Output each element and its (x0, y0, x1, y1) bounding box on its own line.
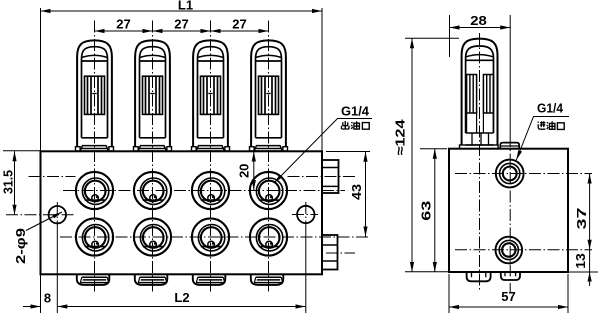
dim 57 ext right (567, 274, 569, 313)
dim L1 ext left (40, 8, 42, 151)
arrow 27 c2R (153, 29, 163, 33)
svg-text:63: 63 (419, 201, 434, 221)
centerline mounting-hole left vertical (56, 202, 58, 230)
dim 43 ext top (326, 151, 370, 153)
dim L2 line (57, 306, 305, 308)
dim 31.5 ext top (3, 150, 40, 152)
svg-text:57: 57 (501, 289, 515, 304)
port A4 (250, 172, 287, 209)
svg-text:37: 37 (575, 207, 589, 229)
svg-text:27: 27 (232, 17, 246, 32)
dim 43 line (365, 152, 367, 237)
dim 37/13 line (589, 174, 591, 287)
arrowhead leader 2-phi9 (52, 212, 62, 218)
centerline column 2 (152, 21, 154, 293)
svg-text:43: 43 (349, 184, 364, 200)
centerline inlet port (side) (509, 15, 511, 135)
valve body (front) (41, 151, 323, 274)
char jin (538, 121, 546, 129)
svg-text:G1/4: G1/4 (341, 105, 369, 119)
leader lines (26, 117, 569, 231)
arrow 27 c3L (201, 29, 211, 33)
centerline port row 2 (60, 236, 370, 238)
arrowhead leader outlet (274, 175, 283, 184)
centerline port row 1 (63, 190, 345, 192)
foot 3 (193, 274, 226, 285)
side port 1 (496, 160, 524, 188)
port A3 (192, 172, 229, 209)
valve cap 3 (192, 40, 230, 151)
svg-text:20: 20 (237, 164, 252, 178)
arrow 27 c1 (95, 29, 105, 33)
arrow 124 top (410, 38, 414, 48)
inlet boss (500, 143, 519, 149)
svg-text:L1: L1 (178, 0, 193, 13)
port B3 (192, 218, 229, 255)
dim 27 line (95, 30, 269, 32)
fitting block lower (322, 235, 338, 270)
centerline side port row 2 (455, 249, 592, 251)
dim 8 ext (40, 274, 42, 313)
foot 1 (77, 274, 110, 285)
svg-text:28: 28 (470, 13, 487, 28)
arrowhead leader inlet (516, 150, 522, 160)
fitting block upper centerline (29, 176, 356, 178)
port B1 (76, 218, 113, 255)
arrow L1 left (41, 9, 51, 13)
arrow 20 bottom (252, 180, 256, 190)
label inlet chinese (drawn) (538, 121, 565, 129)
arrow 31.5 bottom (12, 205, 16, 215)
arrow L2 right (296, 304, 306, 308)
centerline mounting-hole right vertical (305, 202, 307, 230)
svg-text:G1/4: G1/4 (537, 102, 563, 116)
centerline spool (side) (479, 33, 481, 292)
arrow L1 right (312, 9, 322, 13)
arrow 27 c4 (259, 29, 269, 33)
svg-text:8: 8 (44, 291, 51, 306)
arrow 43 bottom (363, 227, 367, 237)
fitting block upper (322, 160, 339, 193)
svg-text:L2: L2 (174, 290, 189, 305)
arrow L2 left (57, 304, 67, 308)
arrow 37 top (588, 174, 592, 184)
arrow 28 left (450, 25, 460, 29)
dim 57 line (449, 306, 568, 308)
leader G1/4 outlet (274, 119, 372, 184)
centerline column 3 (210, 21, 212, 293)
foot 4 (251, 274, 283, 285)
leader 2-phi9 (26, 212, 62, 231)
dim 63 ext top (420, 148, 447, 150)
arrow 27 c2L (143, 29, 153, 33)
port A2 (134, 172, 171, 209)
dim 57 ext left (448, 274, 450, 313)
dim 31.5 line (14, 151, 16, 214)
arrow 28 right (500, 25, 510, 29)
valve cap (side) (460, 39, 499, 149)
side foot 1 (467, 272, 491, 281)
mounting hole left (49, 206, 66, 223)
arrow 43 top (363, 152, 367, 162)
valve cap 2 (134, 40, 172, 151)
centerline column 1 (94, 21, 96, 293)
arrow 57 left (449, 305, 459, 309)
dim 8 line (23, 306, 41, 308)
char you (351, 121, 359, 129)
svg-text:13: 13 (574, 253, 588, 269)
dim 28 line (450, 27, 511, 29)
valve body (side) (449, 149, 568, 272)
char kou (362, 123, 369, 130)
dim approx124 line (411, 38, 413, 272)
valve cap 1 (76, 40, 114, 151)
centerline mounting-hole row right (292, 214, 318, 216)
svg-text:≈124: ≈124 (392, 119, 407, 156)
dim L1 ext right (321, 8, 323, 151)
mounting hole right (297, 206, 314, 223)
centerline column 4 (268, 21, 270, 293)
dim 20 line (253, 152, 255, 191)
port B4 (250, 218, 287, 255)
arrow 27 c3R (211, 29, 221, 33)
foot 2 (135, 274, 168, 285)
arrow 63 bottom (433, 262, 437, 272)
dim approx124/63 ext bottom (405, 271, 449, 273)
label outlet chinese (drawn) (342, 121, 370, 129)
side foot 2 (501, 272, 520, 280)
port B2 (134, 218, 171, 255)
fitting block lower centerline (326, 252, 355, 254)
arrow 63 top (433, 149, 437, 159)
char you (547, 121, 555, 129)
centerline side port row 1 (455, 173, 592, 175)
valve cap 4 (250, 40, 288, 151)
leader G1/4 inlet (516, 117, 569, 161)
svg-text:2-φ9: 2-φ9 (14, 228, 28, 264)
port A1 (76, 172, 113, 209)
dim 28 ext left (449, 15, 451, 57)
centerline mounting-hole row left (6, 214, 75, 216)
arrow 31.5 top (12, 151, 16, 161)
dim L1 line (41, 10, 323, 12)
arrow 13 bottom (588, 272, 592, 282)
dim approx124 ext top (405, 37, 459, 39)
arrow 8 (31, 304, 41, 308)
arrow 20 top (252, 152, 256, 162)
side port 2 (496, 237, 523, 264)
char chu (342, 121, 350, 129)
svg-text:31.5: 31.5 (2, 170, 16, 194)
dim 63 line (434, 149, 436, 272)
arrow 124 bottom (410, 262, 414, 272)
char kou (557, 123, 564, 130)
dim 13 ext bottom (568, 271, 598, 273)
arrow 57 right (558, 305, 568, 309)
arrow 37 bottom (588, 240, 592, 250)
svg-text:27: 27 (174, 17, 188, 32)
svg-text:27: 27 (116, 17, 130, 32)
